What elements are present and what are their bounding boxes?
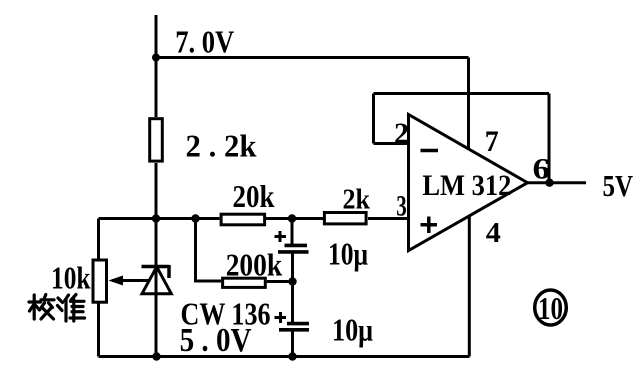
wire main zener rail: [155, 219, 158, 357]
op-amp U1 LM312 triangle: [409, 115, 528, 251]
wire feedback top: [374, 92, 550, 95]
zener diode cathode bar: [142, 265, 170, 278]
wire supply drop to pin7: [467, 58, 470, 151]
wire feedback left drop: [374, 94, 409, 144]
wire top vertical supply rail: [155, 15, 158, 117]
node junction dot main rail: [152, 214, 160, 222]
node junction dot cap rail top: [288, 214, 296, 222]
op-amp plus sign pin3: [421, 217, 438, 234]
wire cap rail lower: [291, 331, 294, 357]
capacitor C2 plus sign: [275, 312, 287, 323]
wire 2.2k to node: [155, 163, 158, 219]
wire 200k right to cap rail: [267, 280, 293, 283]
figure number circled 10: [535, 290, 567, 325]
svg-text:10μ: 10μ: [328, 235, 368, 271]
svg-text:10k: 10k: [51, 259, 91, 295]
potentiometer 10k body: [93, 260, 107, 302]
wire node line mid segment: [266, 217, 323, 220]
label jiao zhun chinese: [29, 295, 85, 322]
svg-text:LM 312: LM 312: [422, 169, 511, 202]
svg-text:6: 6: [533, 153, 551, 186]
svg-text:200k: 200k: [226, 247, 283, 283]
wire cap rail upper: [291, 219, 294, 246]
svg-text:10μ: 10μ: [332, 312, 373, 348]
svg-text:7. 0V: 7. 0V: [175, 24, 234, 60]
wire pin4 drop: [468, 212, 471, 357]
resistor R 2.2k body: [150, 119, 163, 161]
wire rail through zener: [155, 267, 158, 357]
wire 200k left branch: [194, 219, 221, 282]
capacitor C1 plus sign: [275, 231, 287, 242]
node junction dot cap ground: [288, 352, 296, 360]
wire cap rail mid: [291, 253, 294, 322]
wire 7.0V horizontal rail: [156, 56, 469, 59]
op-amp minus sign pin2: [421, 149, 439, 153]
svg-text:3: 3: [396, 190, 407, 223]
wire output to 5V: [528, 181, 587, 184]
node junction dot 200k right: [288, 277, 296, 285]
wire feedback right drop to output: [548, 94, 551, 183]
wire node line right segment to pin3: [368, 217, 409, 220]
resistor 20k body: [221, 214, 265, 225]
node junction dot output: [545, 179, 553, 187]
svg-text:2 . 2k: 2 . 2k: [186, 127, 257, 163]
svg-text:10: 10: [538, 290, 563, 326]
resistor 2k body: [324, 213, 366, 224]
svg-text:2: 2: [394, 117, 409, 150]
node junction dot 200k branch: [191, 214, 199, 222]
wire bottom ground rail: [99, 355, 470, 358]
wire pot bottom branch: [97, 304, 100, 357]
wire node line left segment: [99, 217, 220, 220]
potentiometer wiper arrow: [112, 279, 150, 282]
node junction dot zener ground: [152, 352, 160, 360]
capacitor C2 10u plates: [279, 324, 309, 330]
resistor 200k body: [223, 278, 266, 287]
zener diode CW136 triangle: [142, 267, 171, 294]
svg-text:5 . 0V: 5 . 0V: [180, 322, 252, 359]
svg-text:4: 4: [486, 217, 501, 249]
svg-text:2k: 2k: [343, 184, 371, 216]
svg-text:20k: 20k: [233, 178, 275, 214]
wire pot top branch: [97, 219, 100, 260]
svg-text:7: 7: [485, 125, 499, 158]
capacitor C1 10u plates: [278, 245, 309, 252]
node junction dot 7.0V tap: [152, 54, 160, 62]
svg-text:5V: 5V: [603, 168, 634, 203]
